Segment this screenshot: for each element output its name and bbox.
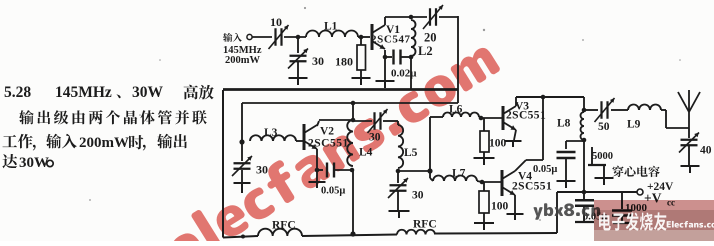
wire R1 to ground xyxy=(360,70,362,77)
node I xyxy=(350,168,355,173)
svg-text:5.28: 5.28 xyxy=(4,84,31,101)
node L5b xyxy=(396,169,401,174)
ground G14 xyxy=(575,221,594,223)
wire L4 to bottom bus xyxy=(352,170,354,235)
ground G6 xyxy=(389,211,410,218)
trimmer capacitor C4 30 xyxy=(232,142,268,177)
inductor L2 xyxy=(411,20,433,58)
wire L6 to node N xyxy=(479,117,481,118)
wire collector tie horiz xyxy=(526,159,543,161)
ground G10 xyxy=(507,214,524,220)
svg-text:100: 100 xyxy=(489,138,507,150)
capacitor C11 0.05μ xyxy=(533,141,576,180)
svg-text:L2: L2 xyxy=(418,44,433,58)
wire V1 emitter down xyxy=(384,50,386,57)
wire L1 to V1 base xyxy=(358,36,370,38)
ground G11 xyxy=(595,178,614,185)
wire C10 to node I xyxy=(334,169,352,171)
scan specks xyxy=(89,7,681,221)
wire L8 down xyxy=(583,140,585,192)
wire C6 down xyxy=(397,191,399,210)
wire V3 collector up xyxy=(515,97,517,106)
svg-text:2SC551: 2SC551 xyxy=(506,110,546,122)
wire top supply xyxy=(516,96,584,98)
svg-text:L9: L9 xyxy=(627,119,641,131)
wire R3 down xyxy=(483,213,485,222)
svg-text:30W: 30W xyxy=(132,84,164,101)
trimmer capacitor C6 30 xyxy=(388,178,424,202)
svg-text:L4: L4 xyxy=(359,147,373,159)
trimmer capacitor C3 20 xyxy=(423,5,443,45)
wire L5 to node M xyxy=(398,170,430,172)
wire C8 down xyxy=(688,146,690,165)
resistor R1 180 xyxy=(335,45,366,70)
wire node D down xyxy=(410,57,412,90)
capacitor C9 0.02μ xyxy=(391,50,417,80)
wire left border xyxy=(222,90,224,238)
node R xyxy=(582,108,587,113)
wire +V corner down xyxy=(556,192,558,233)
wire L7 to node Q xyxy=(477,181,482,182)
feedthrough capacitor C12 5000 xyxy=(588,147,613,177)
watermark elecfans.com diagonal xyxy=(160,34,501,246)
inductor L4 xyxy=(347,120,372,166)
svg-text:50: 50 xyxy=(598,121,610,133)
ground G9 xyxy=(474,223,494,230)
inductor L5 xyxy=(398,125,418,168)
svg-text:RFC: RFC xyxy=(272,220,296,232)
wire L5b down xyxy=(397,171,399,183)
svg-text:L5: L5 xyxy=(404,147,418,159)
trimmer capacitor C5 30 xyxy=(368,109,388,144)
wire M to L7 xyxy=(430,171,433,181)
inductor L9 xyxy=(624,105,666,131)
wire bus w2 xyxy=(242,102,458,104)
svg-text:2SC551: 2SC551 xyxy=(308,138,349,150)
wire L3 to V2 base xyxy=(296,140,303,142)
wire R3 stem xyxy=(483,182,485,191)
svg-text:180: 180 xyxy=(335,55,353,69)
svg-text:0.02μ: 0.02μ xyxy=(391,68,417,80)
ground G2 xyxy=(352,78,371,85)
svg-text:200mW: 200mW xyxy=(225,55,260,66)
label C13 0.05μ xyxy=(583,212,607,223)
wire input to C1 xyxy=(252,36,272,38)
wire top corner down xyxy=(583,97,585,110)
node S xyxy=(582,138,587,143)
watermark logo box xyxy=(594,200,714,241)
wire +V rail xyxy=(557,191,637,193)
svg-text:V2: V2 xyxy=(320,126,334,138)
wire node N to V3 base xyxy=(481,117,502,119)
node A xyxy=(296,35,301,40)
svg-text:2SC551: 2SC551 xyxy=(512,181,552,193)
wire bottom bus right xyxy=(435,232,557,235)
wire V2 collector xyxy=(317,120,353,126)
wire V4 collector bend xyxy=(515,160,526,171)
wire node G to C5 xyxy=(353,120,372,122)
label 200mW xyxy=(225,55,260,66)
wire node A down xyxy=(297,37,299,53)
svg-text:L6: L6 xyxy=(449,104,463,116)
wire R2 down xyxy=(483,152,485,157)
svg-text:L7: L7 xyxy=(452,168,466,180)
node H xyxy=(351,101,356,106)
wire top to C3 xyxy=(385,16,427,18)
watermark ybx8.cn xyxy=(534,203,601,219)
trimmer capacitor C1 10 xyxy=(269,15,289,49)
wire V4 emitter down xyxy=(514,195,516,213)
ground G15 xyxy=(613,222,631,224)
rfc choke RFC2 xyxy=(397,219,437,235)
svg-text:40: 40 xyxy=(700,145,712,157)
wire R2 stem xyxy=(483,118,485,131)
inductor L8 xyxy=(557,112,584,140)
svg-text:200mW: 200mW xyxy=(79,135,129,151)
inductor L1 xyxy=(306,21,358,38)
capacitor C13 0.05μ xyxy=(575,192,594,221)
svg-text:L3: L3 xyxy=(264,127,278,139)
node N xyxy=(479,116,484,121)
wire bus mid xyxy=(302,235,397,237)
ground G5 xyxy=(309,182,326,188)
wire bus w1 xyxy=(223,88,458,91)
svg-text:0.05μ: 0.05μ xyxy=(321,186,345,197)
node F xyxy=(239,139,244,144)
ground G3 xyxy=(376,81,395,88)
svg-text:30: 30 xyxy=(369,132,381,144)
trimmer capacitor C2 30 xyxy=(288,49,324,69)
svg-text:30: 30 xyxy=(412,190,424,202)
node E xyxy=(383,55,388,60)
node K xyxy=(350,231,355,236)
caption line 2 xyxy=(19,110,207,124)
wire C2 to ground xyxy=(297,62,299,77)
transistor V2 2SC551 xyxy=(304,124,349,150)
supply terminal +24V xyxy=(637,181,675,208)
svg-text:0.05μ: 0.05μ xyxy=(533,164,557,175)
trimmer capacitor C8 40 xyxy=(679,133,712,157)
ground G4 xyxy=(234,183,251,193)
wire V1 collector to top xyxy=(384,17,386,25)
node T xyxy=(582,190,587,195)
node Q xyxy=(480,180,485,185)
svg-text:5000: 5000 xyxy=(592,151,613,162)
resistor R3 100 xyxy=(479,191,509,213)
svg-text:30: 30 xyxy=(312,54,324,68)
label 145MHz xyxy=(223,45,262,56)
inductor L6 xyxy=(430,104,479,118)
transistor V1 2SC547 xyxy=(371,24,411,50)
node M xyxy=(427,168,432,173)
wire V1 emitter to ground xyxy=(384,57,386,80)
wire L2 to node D xyxy=(410,56,412,57)
svg-text:30: 30 xyxy=(256,163,268,177)
wire node J ground xyxy=(316,170,318,181)
caption line 1 xyxy=(4,84,214,101)
capacitor C14 1000 xyxy=(612,192,648,222)
svg-text:10: 10 xyxy=(270,15,282,29)
input terminal 输入 xyxy=(223,33,252,42)
ground G13 xyxy=(557,181,576,188)
transistor V4 2SC551 xyxy=(502,170,552,196)
wire w2 drop xyxy=(241,103,243,142)
wire antenna to C8 xyxy=(688,128,690,138)
antenna xyxy=(678,90,700,128)
capacitor C10 0.05μ xyxy=(321,163,345,197)
node C xyxy=(409,15,414,20)
svg-text:145MHz: 145MHz xyxy=(55,84,112,101)
wire L4 riser xyxy=(352,103,354,120)
wire V3 emitter down xyxy=(514,130,516,140)
svg-text:RFC: RFC xyxy=(413,219,437,231)
wire C3 to corner xyxy=(439,16,458,18)
transistor V3 2SC551 xyxy=(503,101,546,131)
svg-text:30W: 30W xyxy=(19,155,49,171)
wire L6 riser xyxy=(429,117,431,171)
wire L5 top xyxy=(397,121,399,125)
svg-text:L1: L1 xyxy=(324,21,338,33)
inductor L7 xyxy=(433,168,477,182)
inductor L3 xyxy=(250,127,296,141)
svg-text:2SC547: 2SC547 xyxy=(371,34,411,46)
wire node Q to V4 base xyxy=(482,181,501,183)
wire V2 emitter down xyxy=(316,149,318,170)
ground G7 xyxy=(474,158,495,165)
trimmer capacitor C7 50 xyxy=(584,98,624,133)
svg-text:20: 20 xyxy=(424,31,437,45)
wire node S to C11 xyxy=(566,140,584,142)
node B xyxy=(359,35,364,40)
ground G12 xyxy=(681,166,700,173)
wire C9 to node D xyxy=(401,56,411,58)
wire right side down xyxy=(457,16,459,103)
label 穿心电容 xyxy=(612,166,659,177)
wire bottom bus left xyxy=(223,235,258,239)
node O xyxy=(541,95,546,100)
node J xyxy=(315,168,320,173)
rfc choke RFC1 xyxy=(258,220,302,237)
resistor R2 100 xyxy=(480,131,507,152)
wire L9 corner xyxy=(666,110,689,128)
node D xyxy=(409,55,414,60)
ground G1 xyxy=(289,78,308,85)
wire node J to C10 xyxy=(317,169,323,171)
wire C1 to node A xyxy=(284,36,306,38)
caption line 4 xyxy=(2,154,53,171)
wire C4 to ground xyxy=(241,170,243,182)
wire node B down xyxy=(360,37,362,45)
svg-text:L8: L8 xyxy=(557,118,571,130)
svg-text:100: 100 xyxy=(491,201,509,213)
caption line 3 xyxy=(2,134,186,151)
wire collector tie vertical xyxy=(542,97,544,160)
wire node E to C9 xyxy=(385,56,392,58)
wire C5 to L5 xyxy=(383,120,398,122)
node G2m xyxy=(351,118,356,123)
ground G8 xyxy=(505,141,522,147)
